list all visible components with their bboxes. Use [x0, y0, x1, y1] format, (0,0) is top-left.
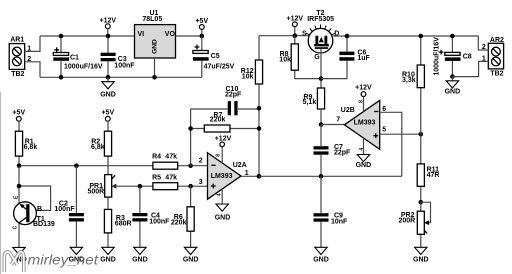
svg-text:200R: 200R: [399, 217, 416, 224]
svg-text:GND: GND: [356, 162, 372, 169]
ground C8: [445, 77, 461, 96]
svg-text:S: S: [302, 30, 307, 37]
wire AR1 pin2 to GND rail: [25, 62, 40, 78]
svg-text:U2A: U2A: [233, 162, 247, 169]
svg-text:B: B: [37, 206, 42, 213]
svg-text:GND: GND: [100, 257, 116, 264]
capacitor C9 10nF: [314, 176, 349, 247]
node R7 left: [188, 126, 193, 131]
svg-text:78L05: 78L05: [142, 16, 162, 23]
capacitor C3 100nF: [101, 36, 136, 77]
svg-text:C8: C8: [463, 54, 472, 61]
wire U1 VO to +5V node: [176, 35, 202, 37]
node C3 top: [106, 34, 111, 39]
resistor R5 47k: [152, 175, 178, 190]
svg-text:6,8k: 6,8k: [91, 144, 105, 151]
svg-text:C5: C5: [211, 53, 220, 60]
svg-text:10k: 10k: [279, 56, 291, 63]
svg-text:VO: VO: [165, 31, 176, 38]
node R8 top: [293, 33, 298, 38]
wire inverting input line (R1 node to U2A pin 2): [19, 165, 208, 167]
power +12V U2A: [215, 136, 232, 163]
svg-text:22pF: 22pF: [225, 91, 242, 98]
node C1 bottom: [59, 75, 64, 80]
svg-text:AR2: AR2: [490, 37, 504, 44]
ground R6: [183, 247, 199, 263]
power +12V T2: [287, 15, 304, 35]
svg-text:8: 8: [215, 154, 221, 157]
wire U1 GND pin: [154, 58, 156, 77]
svg-text:U2B: U2B: [341, 107, 355, 114]
svg-text:500R: 500R: [88, 188, 105, 195]
node R7 right: [257, 126, 262, 131]
svg-text:10nF: 10nF: [331, 218, 348, 225]
svg-text:TB2: TB2: [490, 71, 503, 78]
node T2 gate: [319, 76, 324, 81]
svg-text:GND: GND: [132, 257, 148, 264]
node C7 C9 junction: [319, 174, 324, 179]
svg-text:+5V: +5V: [101, 110, 114, 117]
svg-text:47k: 47k: [165, 175, 177, 182]
svg-text:GND: GND: [413, 257, 429, 264]
node +5V: [200, 34, 205, 39]
node R11 PR2: [419, 200, 424, 205]
resistor R3 680R: [104, 209, 131, 247]
power +5V rail R2: [101, 110, 114, 122]
resistor R4 47k: [152, 154, 178, 170]
svg-text:100nF: 100nF: [114, 63, 135, 70]
svg-text:7: 7: [336, 116, 340, 123]
node U2B output: [319, 122, 324, 127]
regulator U1 78L05: [135, 10, 176, 58]
wire R9 to U2B output node: [320, 109, 322, 125]
node C2 top: [74, 163, 79, 168]
resistor R2 6,8k: [91, 121, 112, 174]
capacitor C7 22pF: [314, 125, 352, 177]
ground T1: [11, 247, 27, 263]
capacitor C2 100nF: [54, 166, 84, 248]
svg-text:3: 3: [199, 179, 203, 186]
svg-text:680R: 680R: [115, 221, 132, 228]
wire AR2 pin2 to rail: [478, 36, 488, 50]
wire U2B pin6 feedback: [380, 112, 402, 176]
svg-text:4: 4: [359, 148, 365, 151]
trimmer PR1 500R: [88, 175, 117, 210]
svg-text:C: C: [13, 225, 19, 229]
capacitor C4 100nF: [132, 186, 170, 247]
svg-text:6,8k: 6,8k: [24, 144, 38, 151]
node C6 top: [345, 34, 350, 39]
ground U2A pin4: [215, 189, 231, 222]
svg-text:VI: VI: [138, 31, 145, 38]
node T1 base loop: [17, 184, 22, 189]
op-amp U2A LM393: [208, 153, 247, 200]
node pin5 R10: [419, 132, 424, 137]
svg-text:47k: 47k: [165, 154, 177, 161]
ground input rail: [100, 77, 116, 98]
resistor R6 220k: [171, 186, 194, 247]
svg-text:GND: GND: [100, 91, 116, 98]
node R1 bottom: [17, 163, 22, 168]
svg-text:+5V: +5V: [12, 110, 25, 117]
transistor T1 BD139: [13, 166, 55, 248]
svg-text:LM393: LM393: [211, 173, 233, 180]
svg-text:AR1: AR1: [10, 37, 24, 44]
connector AR1 TB2: [9, 37, 25, 78]
node R6 top: [188, 184, 193, 189]
wire +12V input rail: [40, 35, 135, 37]
svg-text:GND: GND: [313, 257, 329, 264]
svg-text:mirley_net: mirley_net: [28, 252, 100, 267]
svg-text:1000uF/16V: 1000uF/16V: [433, 37, 440, 76]
node C4 top: [138, 184, 143, 189]
wire +12V rail right (source side): [259, 35, 309, 37]
svg-text:LM393: LM393: [354, 120, 376, 127]
wire R12 column to output node: [258, 108, 260, 176]
svg-text:100nF: 100nF: [149, 219, 170, 226]
power +12V input: [100, 17, 117, 36]
capacitor C10 22pF: [225, 86, 242, 115]
svg-text:R5: R5: [152, 175, 161, 182]
svg-text:3,3k: 3,3k: [402, 77, 416, 84]
svg-text:8: 8: [358, 100, 364, 103]
svg-text:IRF5305: IRF5305: [307, 16, 334, 23]
svg-text:TB2: TB2: [11, 71, 24, 78]
svg-text:10k: 10k: [242, 73, 254, 80]
wire R7 link: [191, 128, 259, 130]
node C8 bottom: [450, 74, 455, 79]
svg-text:220k: 220k: [171, 220, 187, 227]
node C1 top: [59, 34, 64, 39]
resistor R10 3,3k: [402, 36, 424, 134]
svg-text:GND: GND: [183, 257, 199, 264]
node C10 right: [257, 106, 262, 111]
capacitor C5 47uF/25V: [193, 36, 235, 77]
node C8 top: [450, 34, 455, 39]
connector AR2 TB2: [488, 37, 504, 78]
wire +12V rail right (drain side): [332, 35, 478, 37]
resistor R9 5,1k: [303, 88, 325, 109]
wire GND rail: [40, 76, 202, 78]
wire U2B output pin 7: [321, 124, 344, 126]
svg-text:4: 4: [216, 193, 222, 196]
ground R3: [100, 247, 116, 263]
ground C2: [69, 247, 85, 263]
capacitor C6 1uF: [321, 36, 371, 79]
wire feedback column x190: [190, 109, 192, 166]
svg-text:1uF: 1uF: [357, 55, 370, 62]
resistor R8 10k: [279, 36, 321, 79]
ground PR2: [413, 247, 429, 263]
resistor R7 220k: [204, 112, 230, 132]
capacitor C8 1000uF/16V: [433, 36, 471, 77]
wire AR2 pin1 to ground: [452, 61, 488, 76]
trimmer PR2 200R: [399, 202, 431, 247]
wire T2 gate column: [320, 49, 322, 88]
svg-text:47uF/25V: 47uF/25V: [204, 64, 235, 71]
svg-text:5: 5: [382, 127, 386, 134]
node feedback to pin2: [188, 163, 193, 168]
svg-text:5,1k: 5,1k: [303, 99, 317, 106]
left image border line: [0, 92, 2, 274]
resistor R1 6,8k: [15, 121, 37, 165]
svg-text:220k: 220k: [210, 117, 226, 124]
svg-text:GND: GND: [445, 89, 461, 96]
svg-text:22pF: 22pF: [334, 150, 351, 157]
wire U2B pin5: [380, 133, 421, 135]
wire output feedback line: [259, 175, 402, 177]
svg-text:47R: 47R: [427, 172, 440, 179]
node C3 bottom: [106, 75, 111, 80]
power +5V rail R1: [12, 110, 25, 122]
svg-text:C1: C1: [70, 54, 79, 61]
node R10 top: [419, 34, 424, 39]
svg-text:G: G: [314, 54, 320, 61]
ground C9: [313, 247, 329, 263]
watermark logo M: [4, 252, 24, 272]
svg-text:BD139: BD139: [33, 221, 55, 228]
svg-text:2: 2: [199, 158, 203, 165]
power +5V regulator output: [195, 18, 208, 36]
wire U2A output: [241, 175, 259, 177]
node U2A output: [257, 174, 262, 179]
ground U2B pin4: [356, 138, 372, 169]
power +12V U2B: [355, 85, 372, 112]
resistor R12 10k: [241, 36, 263, 109]
wire non-inverting line (PR1 wiper to U2A pin 3): [113, 185, 208, 187]
resistor R11 47R: [417, 134, 439, 202]
op-amp U2B LM393: [341, 100, 380, 149]
svg-text:R4: R4: [152, 154, 161, 161]
wire C10 link: [191, 108, 259, 110]
svg-text:GND: GND: [151, 39, 158, 54]
svg-text:+12V: +12V: [215, 136, 232, 143]
capacitor C1 1000uF/16V: [53, 36, 103, 77]
ground C4: [132, 247, 148, 263]
svg-text:GND: GND: [215, 215, 231, 222]
svg-text:100nF: 100nF: [54, 206, 75, 213]
svg-text:1000uF/16V: 1000uF/16V: [64, 63, 103, 70]
node U1 GND: [152, 75, 157, 80]
svg-text:+12V: +12V: [355, 85, 372, 92]
wire AR1 pin1 to +12V rail: [25, 36, 40, 51]
transistor T2 IRF5305: [302, 10, 339, 61]
